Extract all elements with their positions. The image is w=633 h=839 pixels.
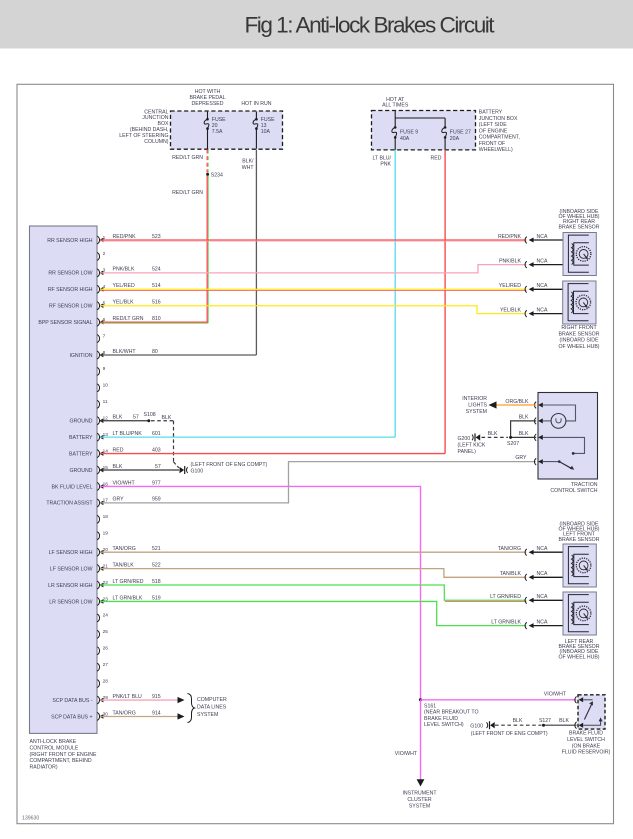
wire BLK dashed to G100 reservoir [495, 718, 542, 725]
svg-text:YEL/BLK: YEL/BLK [113, 300, 135, 306]
ground G100 engine compartment [180, 462, 268, 474]
svg-text:BLK: BLK [488, 431, 498, 437]
svg-text:ORG/BLK: ORG/BLK [505, 399, 529, 405]
svg-text:FUSE 27: FUSE 27 [450, 130, 471, 136]
wire BLK 57 pin12 [100, 415, 149, 421]
svg-text:139630: 139630 [22, 816, 39, 822]
label BLK/WHT feed [242, 159, 255, 171]
module pin 24 [97, 613, 108, 622]
svg-text:BRAKE SENSOR: BRAKE SENSOR [559, 537, 600, 543]
connector NCA left-rear high [490, 594, 563, 604]
svg-text:FRONT OF: FRONT OF [479, 141, 505, 147]
svg-text:PANEL): PANEL) [458, 449, 477, 455]
svg-text:10: 10 [103, 383, 109, 389]
svg-text:RED/LT GRN: RED/LT GRN [172, 190, 203, 196]
svg-text:BRAKE FLUID: BRAKE FLUID [569, 731, 603, 737]
svg-text:24: 24 [103, 613, 109, 619]
svg-text:CONTROL SWITCH: CONTROL SWITCH [550, 488, 597, 494]
svg-text:(NEAR BREAKOUT TO: (NEAR BREAKOUT TO [424, 710, 478, 716]
svg-text:2: 2 [103, 251, 106, 257]
page header bar [0, 0, 633, 49]
connector NCA right-rear high [498, 234, 563, 244]
module pin 8 [69, 350, 105, 359]
svg-text:BLK/WHT: BLK/WHT [113, 349, 137, 355]
svg-text:SCP DATA BUS +: SCP DATA BUS + [51, 714, 92, 720]
svg-text:VIO/WHT: VIO/WHT [544, 692, 567, 698]
traction switch internal lamp feed [543, 405, 576, 421]
module pin 28 [97, 678, 108, 687]
svg-text:PNK: PNK [380, 162, 391, 168]
svg-text:601: 601 [152, 431, 161, 437]
svg-text:NCA: NCA [537, 258, 548, 264]
svg-text:LT GRN/BLK: LT GRN/BLK [113, 595, 143, 601]
central junction box C290 [171, 111, 283, 149]
svg-text:RIGHT FRONT: RIGHT FRONT [561, 325, 597, 331]
svg-text:INTERIOR: INTERIOR [462, 396, 487, 402]
wire RED/LT GRN fuse20 dashed segment [207, 150, 208, 173]
svg-text:10A: 10A [261, 129, 271, 135]
svg-text:LEVEL SWITCH: LEVEL SWITCH [567, 737, 605, 743]
svg-text:BRAKE FLUID: BRAKE FLUID [424, 716, 458, 722]
svg-text:BRAKE SENSOR: BRAKE SENSOR [559, 224, 600, 230]
traction switch contact wire [543, 437, 585, 454]
svg-text:26: 26 [103, 646, 109, 652]
module pin 19 [97, 531, 108, 540]
svg-text:LEVEL SWITCH): LEVEL SWITCH) [424, 722, 464, 728]
module pin 18 [97, 514, 108, 523]
svg-text:BLK: BLK [162, 415, 172, 421]
svg-text:Fig 1: Anti-lock Brakes Circui: Fig 1: Anti-lock Brakes Circuit [245, 12, 496, 37]
brake fluid switch contact [584, 717, 603, 725]
label right rear brake sensor [558, 209, 599, 230]
svg-text:PNK/LT BLU: PNK/LT BLU [113, 694, 142, 700]
fuse 13 10A [253, 112, 275, 149]
svg-text:NCA: NCA [537, 234, 548, 240]
svg-text:BLK: BLK [519, 431, 529, 437]
svg-text:518: 518 [152, 579, 161, 585]
svg-text:S207: S207 [507, 441, 519, 447]
right front brake sensor [563, 281, 596, 324]
svg-text:TAN/ORG: TAN/ORG [113, 546, 136, 552]
svg-text:57: 57 [155, 464, 161, 470]
svg-text:BATTERY: BATTERY [69, 435, 93, 441]
module pin 1 [47, 235, 105, 244]
svg-text:LT BLU/PNK: LT BLU/PNK [113, 431, 143, 437]
svg-text:OF ENGINE: OF ENGINE [479, 128, 508, 134]
svg-text:25: 25 [103, 629, 109, 635]
svg-text:S108: S108 [144, 412, 156, 418]
svg-text:959: 959 [152, 497, 161, 503]
right rear brake sensor [563, 233, 596, 276]
module pin 25 [97, 629, 108, 638]
traction switch pin 3 connector [534, 434, 542, 441]
svg-text:JUNCTION BOX: JUNCTION BOX [479, 116, 518, 122]
svg-text:28: 28 [103, 678, 109, 684]
connector NCA right-rear low [499, 258, 563, 268]
svg-text:S127: S127 [539, 718, 551, 724]
module pin 23 [49, 596, 108, 605]
svg-text:18: 18 [103, 514, 109, 520]
svg-text:BK FLUID LEVEL: BK FLUID LEVEL [52, 484, 93, 490]
label left rear brake sensor [558, 639, 599, 660]
wire TAN/BLK 522 pin21 [100, 562, 526, 577]
wire BLK/WHT vertical fuse13 to pin 8 [255, 150, 257, 356]
svg-text:NCA: NCA [537, 307, 548, 313]
splice S161 [419, 698, 422, 701]
svg-text:TRACTION ASSIST: TRACTION ASSIST [46, 501, 93, 507]
svg-text:OF WHEEL HUB): OF WHEEL HUB) [558, 654, 599, 660]
svg-text:19: 19 [103, 531, 109, 537]
brake fluid switch pin 1 connector [575, 697, 583, 704]
svg-text:CONTROL MODULE: CONTROL MODULE [30, 746, 79, 752]
svg-text:TAN/ORG: TAN/ORG [113, 710, 136, 716]
battery junction box internal bus [395, 111, 445, 122]
svg-text:TAN/BLK: TAN/BLK [113, 562, 135, 568]
computer data lines system brace [188, 694, 227, 723]
traction switch indicator lamp [543, 414, 566, 429]
svg-text:COMPARTMENT,: COMPARTMENT, [479, 135, 520, 141]
svg-text:LT GRN/RED: LT GRN/RED [113, 579, 144, 585]
svg-text:SYSTEM: SYSTEM [466, 409, 487, 415]
svg-text:27: 27 [103, 662, 109, 668]
wire PNK/BLK 524 pin3 [100, 265, 526, 273]
traction switch pin 4 connector [534, 458, 542, 465]
svg-text:40A: 40A [400, 136, 410, 142]
svg-text:NCA: NCA [537, 546, 548, 552]
wire RED 403 pin14 [100, 447, 445, 453]
svg-text:CLUSTER: CLUSTER [407, 797, 431, 803]
wire BLK traction pin2 [511, 415, 537, 438]
label battery junction box [479, 110, 520, 154]
svg-text:GROUND: GROUND [69, 468, 92, 474]
left front brake sensor [563, 544, 596, 587]
svg-text:PNK/BLK: PNK/BLK [113, 267, 135, 273]
svg-text:SYSTEM: SYSTEM [409, 803, 430, 809]
svg-text:ALL TIMES: ALL TIMES [382, 103, 409, 109]
svg-text:514: 514 [152, 283, 161, 289]
svg-text:521: 521 [152, 546, 161, 552]
module pin 4 [48, 284, 106, 293]
svg-text:NCA: NCA [537, 571, 548, 577]
svg-text:ANTI-LOCK BRAKE: ANTI-LOCK BRAKE [30, 739, 77, 745]
module pin 21 [50, 563, 108, 572]
wire YEL/RED 514 pin4 [100, 283, 526, 290]
svg-text:RED/LT GRN: RED/LT GRN [113, 316, 144, 322]
svg-text:BRAKE SENSOR: BRAKE SENSOR [559, 331, 600, 337]
svg-text:G200: G200 [458, 436, 471, 442]
svg-text:WHT: WHT [242, 165, 255, 171]
fuse 20 7.5A [204, 112, 226, 149]
label RED/LT GRN upper [172, 155, 203, 161]
module pin 7 [97, 333, 105, 342]
svg-text:(INBOARD SIDE: (INBOARD SIDE [560, 338, 599, 344]
svg-text:SCP DATA BUS -: SCP DATA BUS - [52, 698, 92, 704]
svg-text:NCA: NCA [537, 283, 548, 289]
svg-text:RED: RED [113, 447, 124, 453]
svg-text:BATTERY: BATTERY [479, 110, 503, 116]
connector NCA left-front low [500, 571, 563, 581]
svg-text:RADIATOR): RADIATOR) [30, 764, 58, 770]
module pin 30 [51, 711, 108, 720]
traction control switch box [538, 393, 598, 480]
svg-text:810: 810 [152, 316, 161, 322]
svg-text:403: 403 [152, 447, 161, 453]
traction switch pin 2 connector [534, 418, 542, 425]
svg-text:914: 914 [152, 710, 161, 716]
svg-text:(LEFT FRONT OF ENG COMPT): (LEFT FRONT OF ENG COMPT) [471, 731, 548, 737]
module pin 17 [46, 498, 108, 507]
svg-text:RED: RED [431, 155, 442, 161]
svg-text:G100: G100 [470, 723, 483, 729]
svg-text:GRY: GRY [515, 455, 527, 461]
splice S127 [539, 718, 551, 727]
wire GRY 959 pin17 [100, 462, 536, 503]
splice S207 [507, 436, 519, 447]
svg-text:NCA: NCA [537, 594, 548, 600]
svg-text:9: 9 [103, 366, 106, 372]
wire TAN/ORG 521 pin20 [100, 546, 526, 552]
svg-text:BATTERY: BATTERY [69, 451, 93, 457]
left rear brake sensor [563, 592, 596, 635]
svg-text:BLK: BLK [519, 415, 529, 421]
svg-text:COLUMN): COLUMN) [144, 139, 168, 145]
module pin 20 [49, 547, 109, 556]
wire LT BLU/PNK 601 pin13 [100, 431, 395, 437]
svg-text:VIO/WHT: VIO/WHT [395, 751, 418, 757]
label instrument cluster system [402, 791, 437, 810]
wire RED vertical fuse27 to pin 14 [444, 150, 446, 454]
svg-text:57: 57 [133, 415, 139, 421]
label hot in run [241, 101, 271, 107]
wire PNK/LT BLU 915 pin29 [100, 694, 185, 703]
brake fluid level switch box [578, 695, 605, 729]
label S161 near breakout [424, 703, 478, 728]
wire LT BLU/PNK vertical fuse9 to pin 13 [394, 150, 396, 437]
svg-text:BLK: BLK [513, 718, 523, 724]
module pin 16 [52, 481, 109, 490]
svg-text:7.5A: 7.5A [212, 129, 223, 135]
svg-text:S161: S161 [424, 703, 436, 709]
svg-text:516: 516 [152, 300, 161, 306]
svg-text:RED/PNK: RED/PNK [498, 234, 522, 240]
wire LT GRN/RED 518 pin22 [100, 579, 526, 602]
label traction control switch [550, 482, 597, 494]
module pin 11 [97, 399, 108, 408]
svg-text:BLK: BLK [559, 718, 569, 724]
svg-text:YEL/RED: YEL/RED [499, 283, 521, 289]
svg-text:RR SENSOR LOW: RR SENSOR LOW [48, 271, 92, 277]
splice S108 [144, 412, 156, 422]
module pin 29 [52, 695, 108, 704]
wire BLK traction pin3 [511, 431, 537, 437]
svg-text:INSTRUMENT: INSTRUMENT [402, 791, 437, 797]
brake fluid switch pin 2 connector [575, 722, 583, 729]
module pin 9 [97, 366, 105, 375]
brake fluid switch arm [584, 700, 593, 720]
svg-text:RED/PNK: RED/PNK [113, 234, 137, 240]
label central junction box [119, 109, 169, 145]
svg-text:519: 519 [152, 595, 161, 601]
svg-text:BLK/: BLK/ [242, 159, 254, 165]
module pin 6 [38, 317, 105, 326]
svg-text:20A: 20A [450, 136, 460, 142]
splice S234 [206, 173, 223, 179]
svg-text:PNK/BLK: PNK/BLK [499, 258, 521, 264]
svg-text:RR SENSOR HIGH: RR SENSOR HIGH [47, 238, 93, 244]
module pin 27 [97, 662, 108, 671]
svg-text:(LEFT FRONT OF ENG COMPT): (LEFT FRONT OF ENG COMPT) [191, 462, 268, 468]
svg-text:RF SENSOR LOW: RF SENSOR LOW [49, 304, 93, 310]
svg-text:915: 915 [152, 694, 161, 700]
battery junction box [372, 111, 476, 150]
connector NCA left-rear low [491, 619, 563, 629]
svg-text:TRACTION: TRACTION [571, 482, 598, 488]
label right front brake sensor [558, 325, 599, 350]
module pin 15 [69, 465, 108, 474]
svg-text:11: 11 [103, 399, 108, 405]
svg-text:LR SENSOR HIGH: LR SENSOR HIGH [48, 583, 93, 589]
svg-text:LT GRN/BLK: LT GRN/BLK [491, 619, 521, 625]
svg-text:COMPUTER: COMPUTER [197, 697, 227, 703]
svg-text:BLK: BLK [113, 415, 123, 421]
wire BLK/WHT 80 pin8 [100, 349, 256, 355]
connector NCA right-front high [499, 283, 563, 293]
svg-text:FLUID RESERVOIR): FLUID RESERVOIR) [562, 750, 611, 756]
label brake fluid level switch [562, 731, 611, 756]
svg-text:HOT IN RUN: HOT IN RUN [241, 101, 271, 107]
svg-text:7: 7 [103, 333, 106, 339]
figure number 139630 [22, 816, 39, 822]
anti-lock brake control module box [30, 226, 98, 733]
wire BLK dashed to G100 [151, 415, 179, 468]
module pin 5 [49, 301, 106, 310]
label RED feed [431, 155, 442, 161]
wire RED/PNK 523 pin1 [100, 234, 526, 241]
fuse 9 40A [392, 118, 418, 150]
svg-text:S234: S234 [211, 173, 223, 179]
label left front brake sensor [558, 522, 599, 543]
label GRY at switch [515, 455, 527, 461]
svg-text:524: 524 [152, 267, 161, 273]
module pin 3 [48, 268, 105, 277]
svg-text:FUSE 9: FUSE 9 [400, 130, 418, 136]
svg-text:VIO/WHT: VIO/WHT [113, 480, 136, 486]
svg-text:COMPARTMENT, BEHIND: COMPARTMENT, BEHIND [30, 758, 92, 764]
svg-text:YEL/RED: YEL/RED [113, 283, 135, 289]
svg-text:LF SENSOR HIGH: LF SENSOR HIGH [49, 550, 93, 556]
module pin 14 [69, 448, 108, 457]
wire VIO/WHT 977 pin16 [100, 480, 421, 700]
module pin 12 [69, 416, 108, 425]
wire RED/LT GRN vertical to pin 6 [207, 176, 208, 323]
label hot at all times [382, 97, 409, 109]
svg-text:DATA LINES: DATA LINES [197, 704, 227, 710]
svg-text:RF SENSOR HIGH: RF SENSOR HIGH [48, 287, 93, 293]
svg-text:BLK: BLK [113, 464, 123, 470]
wire LT GRN/BLK 519 pin23 [100, 595, 526, 625]
ground G200 left kick panel [458, 433, 486, 454]
svg-text:(ON BRAKE: (ON BRAKE [572, 743, 601, 749]
connector NCA left-front high [498, 546, 563, 556]
wire TAN/ORG 914 pin30 [100, 710, 185, 719]
module pin 26 [97, 646, 108, 655]
svg-text:(RIGHT FRONT OF ENGINE: (RIGHT FRONT OF ENGINE [30, 752, 97, 758]
svg-text:80: 80 [152, 349, 158, 355]
traction switch arm [543, 460, 574, 469]
label LT BLU/PNK feed [372, 155, 391, 167]
svg-text:NCA: NCA [537, 619, 548, 625]
svg-text:GROUND: GROUND [69, 419, 92, 425]
svg-text:LIGHTS: LIGHTS [468, 403, 487, 409]
svg-text:YEL/BLK: YEL/BLK [500, 307, 522, 313]
label anti-lock brake control module [30, 739, 97, 770]
svg-text:LT GRN/RED: LT GRN/RED [490, 594, 521, 600]
module pin 13 [69, 432, 108, 441]
svg-text:OF WHEEL HUB): OF WHEEL HUB) [558, 344, 599, 350]
wire RED/LT GRN 810 pin6 [100, 316, 208, 323]
fuse 27 20A [442, 121, 471, 150]
svg-text:LT BLU/: LT BLU/ [372, 155, 391, 161]
svg-text:977: 977 [152, 480, 161, 486]
svg-text:LF SENSOR LOW: LF SENSOR LOW [50, 566, 93, 572]
svg-text:TAN/BLK: TAN/BLK [500, 571, 522, 577]
svg-text:LR SENSOR LOW: LR SENSOR LOW [49, 599, 92, 605]
svg-text:DEPRESSED: DEPRESSED [192, 101, 224, 107]
svg-text:523: 523 [152, 234, 161, 240]
label RED/LT GRN lower [172, 190, 203, 196]
label interior lights system [462, 396, 487, 415]
wire YEL/BLK 516 pin5 [100, 300, 526, 314]
module pin 22 [48, 580, 108, 589]
svg-text:WHEELWELL): WHEELWELL) [479, 147, 513, 153]
module pin 2 [97, 251, 105, 260]
ground G100 near reservoir [470, 721, 548, 737]
svg-text:BPP SENSOR SIGNAL: BPP SENSOR SIGNAL [38, 320, 92, 326]
connector NCA right-front low [500, 307, 563, 317]
wire ORG/BLK interior lights [489, 399, 537, 409]
wire BLK 57 pin15 [100, 464, 179, 470]
traction switch pin 1 connector [534, 402, 542, 409]
svg-text:(LEFT KICK: (LEFT KICK [458, 443, 486, 449]
svg-text:SYSTEM: SYSTEM [197, 712, 218, 718]
wire VIO/WHT to instrument cluster [395, 700, 425, 787]
wire BLK dashed to G200 [482, 431, 509, 437]
svg-text:IGNITION: IGNITION [69, 353, 92, 359]
label hot with brake pedal depressed [189, 89, 225, 107]
module pin 10 [97, 383, 108, 392]
wire BLK brake fluid switch [544, 718, 577, 725]
svg-text:(LEFT SIDE: (LEFT SIDE [479, 122, 507, 128]
svg-text:GRY: GRY [113, 497, 125, 503]
svg-text:RED/LT GRN: RED/LT GRN [172, 155, 203, 161]
svg-text:TAN/ORG: TAN/ORG [498, 546, 521, 552]
svg-text:522: 522 [152, 562, 161, 568]
svg-text:G100: G100 [191, 468, 204, 474]
wire VIO/WHT branch to switch [421, 692, 577, 700]
